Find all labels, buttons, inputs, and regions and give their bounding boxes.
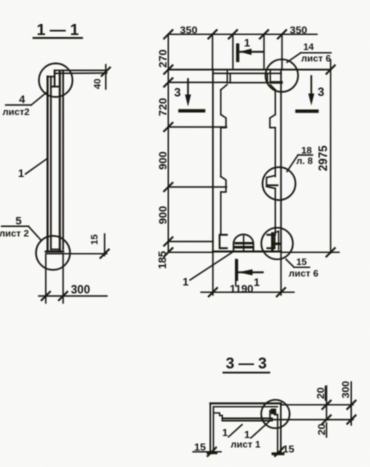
section-1 bottom label — [254, 277, 260, 289]
section-3 right arrowhead — [308, 94, 314, 106]
text 720 — [158, 98, 170, 116]
right wall outer — [280, 70, 282, 252]
right wall inner edge seg3 — [274, 189, 276, 235]
3-3 text 20 bottom underline — [326, 423, 328, 437]
3-3 dim15 right text — [283, 444, 295, 456]
label 15 underline — [294, 266, 310, 268]
text 350 right — [290, 25, 308, 37]
chain tick y187 — [164, 183, 172, 191]
left head vertical b — [229, 73, 231, 82]
3-3 left step — [214, 413, 222, 419]
dim 40 text — [92, 79, 103, 90]
section-1 top label 1 — [244, 38, 250, 50]
label 15/лист6 — [289, 257, 319, 280]
panel right sheet line — [59, 71, 61, 251]
dim 40 tick — [102, 68, 110, 76]
3-3 right foot — [273, 452, 283, 455]
left head vertical a — [226, 71, 228, 83]
left tab2 — [221, 177, 226, 193]
section-1 top arrowhead — [240, 49, 252, 55]
section-1 trace top — [232, 34, 234, 68]
vent dome bar2 — [234, 246, 252, 249]
right wall inner edge seg1 — [274, 90, 276, 115]
label 4 leader — [31, 93, 46, 105]
3-3 sheet ext line — [272, 419, 329, 421]
dim 1190 line — [201, 291, 294, 293]
label 15 leader — [286, 259, 294, 267]
flange bottom line — [227, 82, 270, 84]
dim 15 text — [90, 234, 101, 245]
3-3 right hook detail — [270, 411, 277, 421]
section-3 right bar — [297, 109, 317, 112]
dim 1190 tick left — [209, 288, 217, 296]
label 5 leader — [28, 226, 41, 240]
panel bottom outer line — [46, 251, 63, 253]
dim 300 text — [71, 285, 90, 297]
bottom ext line to 15 dim — [46, 253, 107, 255]
3-3 left inner vertical — [212, 407, 214, 453]
3-3 dim15 left text — [194, 442, 206, 454]
vent dome — [234, 234, 254, 251]
3-3 right leg outer — [280, 403, 282, 453]
3-3 detail circle — [261, 400, 289, 428]
3-3 labels 1 1 лист1 — [222, 427, 261, 451]
3-3 text 20 top underline — [324, 387, 326, 401]
3-3 top inner line — [214, 406, 277, 408]
vent dome center line — [243, 236, 245, 251]
leader 1 bottom-left of plan — [182, 277, 188, 289]
dim 300 ext line left — [45, 255, 47, 303]
title 1-1 — [37, 22, 80, 39]
top dim line — [168, 33, 317, 35]
dim 300 line — [39, 295, 107, 297]
chain tick y241.5 — [164, 237, 172, 245]
panel bottom edge — [213, 251, 281, 253]
top dim tick d — [278, 30, 286, 38]
left bottom bracket — [220, 235, 227, 248]
chain tick y127 — [164, 123, 172, 131]
3-3 leader a — [229, 425, 243, 437]
3-3 dim15 left line — [193, 451, 221, 453]
label 5 / лист2 — [0, 216, 29, 240]
right wall neck diagonal — [270, 85, 275, 90]
section-3 right label — [318, 85, 325, 99]
3-3 left outer vertical — [209, 403, 211, 452]
dim 2975 tick top — [326, 65, 334, 73]
detail circle top-right — [266, 59, 299, 92]
section-1 bottom arrow shaft — [238, 271, 263, 273]
left wall inner edge seg1 — [220, 90, 222, 115]
label 18 underline — [298, 154, 313, 156]
label 1 leader (mid panel) — [18, 168, 24, 180]
dim 15 extension vertical (bottom right of 1-1) — [104, 234, 106, 256]
bottom edge ext left — [168, 251, 213, 253]
detail circle mid-right — [263, 167, 296, 200]
3-3 right dim ext A — [326, 386, 328, 420]
dim 1190 ext left — [212, 253, 214, 295]
right bottom bracket — [267, 235, 274, 248]
detail circle top (4/лист2) — [39, 63, 73, 97]
left tab1 — [221, 115, 226, 128]
top dim tick chain-end — [164, 30, 172, 38]
section-1 bottom bar — [235, 261, 238, 280]
label 14 line — [301, 52, 331, 54]
3-3 leader b — [251, 421, 270, 438]
3-3 dim15 right tick — [275, 448, 283, 456]
left wall inner edge seg2 — [220, 128, 222, 177]
3-3 top outer line — [210, 402, 281, 404]
top step lower horizontal — [51, 86, 59, 88]
label 4 underline — [6, 104, 32, 106]
label 18 leader — [287, 155, 298, 172]
3-3 text 300 — [340, 381, 352, 399]
3-3 right leg inner — [277, 415, 279, 454]
ext v line mid-right — [263, 34, 265, 69]
detail circle bottom-right — [261, 228, 293, 260]
text 900 upper — [158, 151, 170, 169]
text 1190 — [230, 284, 254, 296]
section-3 left arrowhead — [185, 95, 191, 107]
3-3 sheet line b — [222, 420, 272, 422]
section-1 top arrow shaft — [240, 51, 264, 53]
3-3 text 20 top — [315, 387, 327, 399]
chain ext y82.4 — [168, 81, 227, 83]
3-3 dim15 left tick — [208, 448, 216, 456]
title 3-3 — [226, 356, 267, 373]
bottom-right circle F detail — [272, 231, 280, 250]
chain tick y69.6 — [164, 65, 172, 73]
text 2975 — [318, 145, 330, 171]
3-3 dim B tick top — [347, 401, 355, 409]
detail circle bottom (5/лист2) — [36, 236, 70, 270]
right wall inner edge seg2 — [274, 128, 276, 177]
label 5 underline — [2, 225, 29, 227]
dim 2975 vertical — [330, 60, 332, 253]
top dim tick c — [260, 30, 268, 38]
top dim tick a — [208, 30, 216, 38]
label 14/лист6 — [301, 42, 331, 65]
panel bottom inner line — [51, 248, 60, 250]
panel left outer face — [47, 77, 49, 252]
title 1-1 underline — [34, 37, 83, 39]
text 350 left — [180, 25, 198, 37]
section-1 bottom trace — [235, 260, 237, 286]
chain tick y252 — [164, 248, 172, 256]
dim 1190 tick right — [277, 288, 285, 296]
ext v line right edge up — [281, 34, 283, 69]
vent dome bar1 — [236, 242, 252, 244]
3-3 h connector top — [327, 404, 354, 406]
text 185 — [157, 251, 169, 269]
3-3 dim A tick bottom — [322, 415, 330, 423]
section-3 right mark shaft — [310, 76, 312, 98]
chain ext y241.5 — [168, 241, 213, 243]
dim 15 tick — [100, 250, 108, 258]
3-3 sheet line a — [222, 417, 272, 419]
panel top edge — [168, 69, 330, 71]
dash in mid right circle — [268, 184, 278, 186]
right tab2 — [267, 176, 276, 189]
section-3 left mark shaft — [187, 79, 189, 99]
panel right outer face — [62, 70, 64, 249]
3-3 text 20 bottom — [316, 423, 328, 435]
section-3 left bar — [180, 109, 204, 112]
3-3 left foot — [208, 451, 216, 454]
section-1 top mark: thick bar — [236, 45, 239, 61]
panel top second line — [213, 72, 281, 74]
section-1 bottom arrowhead — [238, 269, 252, 275]
text 900 lower — [158, 206, 170, 224]
panel top surface line (ext to 40 dim) — [55, 69, 107, 71]
3-3 right dim ext B — [350, 382, 352, 425]
3-3 dim B tick bottom — [347, 415, 355, 423]
dim 300 ext line right — [62, 254, 64, 303]
dim 300 tick right — [59, 292, 67, 300]
ext v line left edge up — [212, 34, 214, 69]
top step vertical — [54, 70, 56, 86]
title 3-3 underline — [223, 372, 269, 374]
label 18/л.8 — [296, 146, 313, 168]
chain tick y82.4 — [164, 78, 172, 86]
top step horizontal small — [48, 76, 55, 78]
bottom edge ext right — [281, 251, 339, 253]
label 4 / лист2 — [2, 94, 29, 118]
left wall neck diagonal — [221, 85, 227, 90]
3-3 right hook thick mark — [271, 409, 276, 415]
left chain vertical — [167, 34, 169, 252]
3-3 h connector bottom — [327, 419, 354, 421]
top dim tick b — [229, 30, 237, 38]
left wall outer — [212, 70, 214, 252]
right head vertical b — [266, 73, 268, 82]
left wall inner edge seg3 — [220, 192, 222, 235]
weld bar in top right circle — [272, 81, 282, 84]
section-3 left label — [174, 86, 181, 100]
dim 2975 tick bottom — [326, 248, 334, 256]
dim 1190 ext right — [280, 253, 282, 295]
dim 300 tick left — [42, 292, 50, 300]
text 270 — [158, 49, 170, 67]
dim 40 extension vertical — [105, 65, 107, 89]
3-3 dim A tick top — [322, 401, 330, 409]
panel top second line (ext to 40 dim) — [55, 72, 107, 74]
3-3 top ext line to dim — [281, 404, 329, 406]
right tab1 — [270, 115, 275, 128]
panel left sheet line — [50, 77, 52, 250]
right head vertical a — [269, 71, 271, 83]
chain ext y187 — [168, 186, 226, 188]
chain ext y127 — [168, 126, 226, 128]
label 14 leader — [287, 53, 301, 63]
